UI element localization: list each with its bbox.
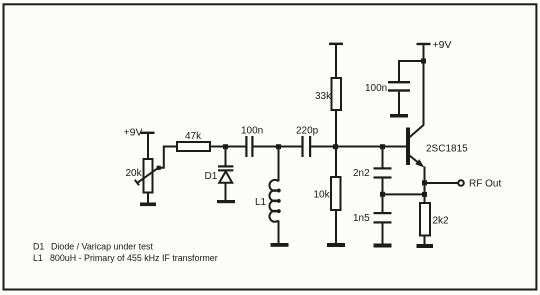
ground (potentiometer) [140,203,156,207]
wire L1 to ground [278,220,280,243]
node junction 2n2/1n5 [380,192,385,197]
wire 100n to ground [398,92,400,114]
svg-text:800uH - Primary of 455 kHz IF: 800uH - Primary of 455 kHz IF transforme… [50,253,218,263]
wire 100n to 220p [254,146,302,148]
ground (100n decoupling) [390,114,408,118]
+9V rail above 33k [329,43,343,45]
svg-text:D1: D1 [33,241,44,251]
svg-text:1n5: 1n5 [353,213,370,224]
svg-text:100n: 100n [241,126,263,137]
ground (L1) [271,243,289,247]
wire 2k2 to ground [424,236,426,245]
capacitor 100n (coupling) [241,126,263,158]
svg-text:20k: 20k [126,168,143,179]
wire junction to D1 [225,149,227,166]
svg-text:2k2: 2k2 [433,216,450,227]
note D1 description [33,241,153,251]
resistor 47k [177,131,210,151]
node junction at L1 [276,144,281,149]
wire D1 to ground [225,183,227,200]
wire to RF Out terminal [425,182,459,184]
capacitor 1n5 [353,212,392,224]
note L1 description [33,253,218,263]
svg-text:2n2: 2n2 [353,168,370,179]
svg-text:+9V: +9V [124,127,143,139]
wire junction to 2n2 [382,149,384,168]
potentiometer 20k [126,159,161,193]
svg-text:10k: 10k [314,190,331,201]
svg-text:2SC1815: 2SC1815 [426,144,468,155]
svg-text:100n: 100n [365,83,387,94]
capacitor 2n2 [353,167,392,179]
wire mid junction to emitter node [385,193,425,195]
capacitor 100n (decoupling) [365,81,410,94]
svg-text:D1: D1 [205,171,218,182]
RF Out terminal [458,179,501,190]
wire from wiper to 47k [161,147,178,168]
node junction emitter / 1n5 tap [422,192,427,197]
wire 47k to 100n [210,146,246,148]
svg-text:47k: 47k [185,131,202,142]
wire 2n2 to mid junction [382,179,384,212]
svg-text:Diode / Varicap under test: Diode / Varicap under test [51,241,153,251]
resistor 2k2 [420,203,449,236]
svg-text:220p: 220p [296,126,319,137]
+9V supply rail left [124,127,155,139]
wire +9V rail down to collector [423,45,425,125]
svg-text:L1: L1 [33,253,43,263]
node junction at D1 [223,144,228,149]
+9V supply rail right [417,39,452,51]
resistor 33k [315,78,341,110]
varicap diode D1 [205,165,234,183]
wire potentiometer bottom to ground [147,193,149,203]
wire emitter down [424,167,426,204]
svg-text:+9V: +9V [433,39,452,51]
svg-text:L1: L1 [255,197,267,208]
ground (D1) [217,200,235,203]
ground (2k2) [417,244,434,248]
capacitor 220p [296,126,319,158]
svg-text:33k: 33k [315,91,332,102]
wire branch to 100n decoupling [399,61,424,81]
wire from +9V rail to potentiometer [147,134,149,159]
ground (10k) [327,243,345,247]
node junction at 2n2 [380,144,385,149]
wire 10k to ground [335,210,337,243]
node junction 33k/10k [333,144,338,149]
transistor Q1 2SC1815 [406,125,468,168]
node junction at decoupling branch [421,59,426,64]
svg-text:RF Out: RF Out [469,179,501,190]
ground (1n5) [374,244,392,248]
wire 33k to junction [335,110,337,177]
resistor 10k [314,177,341,210]
node junction emitter / RF out [422,180,427,185]
wire rail to 33k [335,45,337,78]
wire 1n5 to ground [382,224,384,244]
wire 220p to transistor base [311,146,406,148]
wire junction to L1 [278,149,280,181]
inductor L1 [255,180,280,222]
